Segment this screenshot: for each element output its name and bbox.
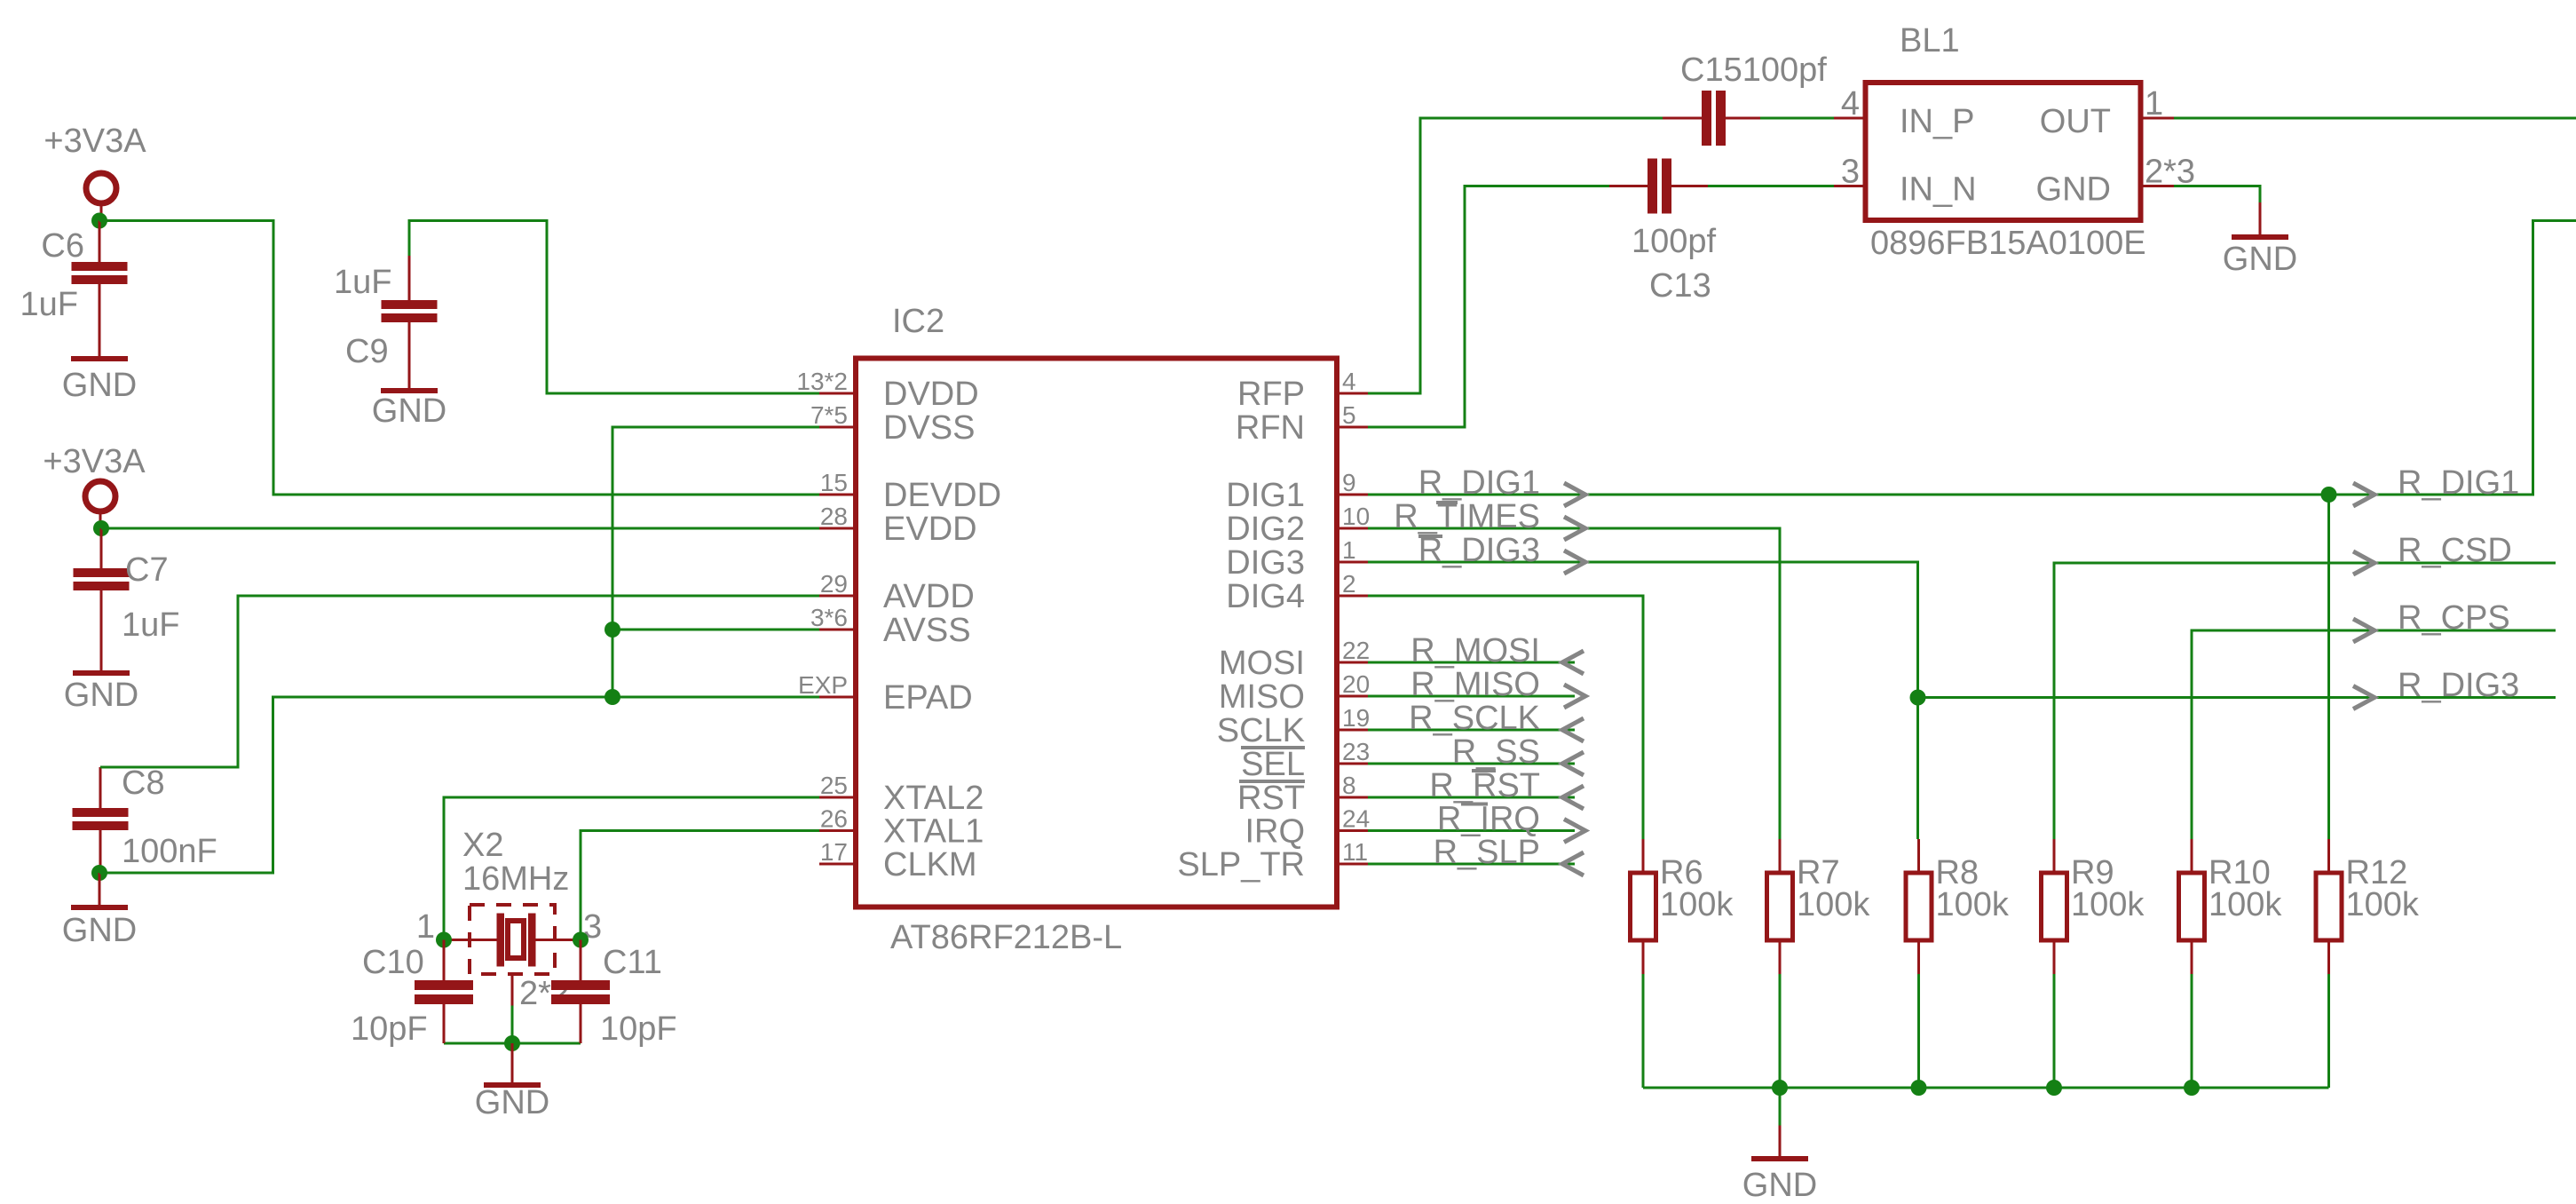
wire EVDD from +3V3A — [101, 527, 819, 530]
svg-text:R_DIG1: R_DIG1 — [2398, 464, 2519, 502]
IC2 pin 10 DIG2 stub — [1335, 527, 1368, 530]
svg-text:C8: C8 — [122, 764, 165, 802]
svg-text:24: 24 — [1342, 805, 1370, 833]
IC2 pin EXP EPAD stub — [819, 696, 857, 699]
svg-text:+3V3A: +3V3A — [43, 123, 146, 160]
balun BL1 body — [1866, 83, 2141, 220]
IC2 pin 1 DIG3 stub — [1335, 561, 1368, 564]
wire R9 bottom to bus — [2053, 974, 2056, 1088]
svg-text:C10: C10 — [362, 944, 424, 981]
wire R12 pullup vertical — [2327, 495, 2330, 839]
wire R8 bottom to bus — [1917, 974, 1920, 1088]
svg-text:MOSI: MOSI — [1219, 645, 1305, 682]
svg-text:R_SS: R_SS — [1452, 733, 1540, 771]
svg-text:100k: 100k — [2346, 886, 2420, 923]
svg-text:100k: 100k — [1936, 886, 2010, 923]
capacitor C6 1uF — [99, 221, 101, 263]
junction node bus/R9 — [2046, 1080, 2062, 1096]
IC2 pin 7*5 DVSS stub — [819, 426, 857, 429]
R_RST arrow — [1562, 786, 1584, 809]
wire R10 bottom to bus — [2191, 974, 2193, 1088]
IC2 pin 4 RFP stub — [1335, 392, 1368, 395]
crystal X2 16MHz — [444, 939, 497, 941]
svg-text:SEL: SEL — [1241, 746, 1305, 783]
IC2 pin 8 RST stub — [1335, 796, 1368, 799]
svg-text:GND: GND — [1742, 1167, 1817, 1204]
svg-text:R_MOSI: R_MOSI — [1410, 632, 1540, 669]
resistor R6 100k — [1642, 839, 1645, 871]
BL1 pin 3 IN_N stub — [1834, 185, 1868, 187]
svg-text:R_SLP: R_SLP — [1434, 834, 1540, 871]
svg-text:C15100pf: C15100pf — [1680, 51, 1827, 89]
svg-text:100pf: 100pf — [1632, 223, 1717, 260]
IC2 pin 9 DIG1 stub — [1335, 494, 1368, 496]
svg-text:X2: X2 — [462, 827, 503, 864]
ground below crystal — [511, 1043, 514, 1082]
svg-text:4: 4 — [1841, 85, 1860, 123]
svg-text:15: 15 — [820, 469, 848, 496]
junction node X2 pin3 — [573, 932, 589, 948]
svg-text:1: 1 — [2145, 85, 2163, 123]
svg-text:C11: C11 — [603, 944, 662, 981]
wire R_MOSI net — [1368, 661, 1575, 664]
svg-text:1uF: 1uF — [334, 264, 391, 301]
svg-text:AVSS: AVSS — [883, 612, 971, 649]
IC2 pin 15 DEVDD stub — [819, 494, 857, 496]
svg-text:RST: RST — [1237, 780, 1305, 817]
svg-text:GND: GND — [372, 392, 446, 430]
R_DIG3 arrow right — [2353, 686, 2375, 709]
IC2 pin 26 XTAL1 stub — [819, 829, 857, 832]
wire R7 bottom to bus — [1779, 974, 1782, 1088]
svg-text:100k: 100k — [2209, 886, 2282, 923]
wire R_SS net — [1368, 763, 1575, 765]
wire DIG4 to R6 — [1368, 596, 1643, 839]
svg-text:100k: 100k — [1660, 886, 1734, 923]
IC2 pin 13*2 DVDD stub — [819, 392, 857, 395]
IC2 pin name RST overline — [1239, 780, 1305, 783]
svg-text:OUT: OUT — [2040, 103, 2111, 140]
svg-text:1uF: 1uF — [122, 606, 179, 644]
R_IRQ overline — [1461, 803, 1488, 806]
capacitor C9 1uF — [408, 256, 411, 300]
svg-text:R_DIG3: R_DIG3 — [2398, 667, 2519, 704]
svg-text:11: 11 — [1342, 838, 1368, 866]
supply +3V3A (top) — [86, 173, 116, 203]
svg-text:R_DIG1: R_DIG1 — [1418, 464, 1540, 502]
resistor R10 100k — [2191, 839, 2193, 871]
svg-text:SLP_TR: SLP_TR — [1177, 846, 1305, 883]
svg-text:DVSS: DVSS — [883, 409, 975, 447]
resistor R9 100k — [2053, 839, 2056, 871]
R_IRQ arrow — [1564, 820, 1585, 843]
svg-text:AT86RF212B-L: AT86RF212B-L — [890, 919, 1122, 956]
R_TIMES arrow — [1564, 517, 1585, 540]
wire R_DIG1 net — [1368, 221, 2576, 495]
resistor R7 100k — [1779, 839, 1782, 871]
ground below BL1 — [2259, 202, 2262, 234]
svg-text:CLKM: CLKM — [883, 846, 977, 883]
svg-text:0896FB15A0100E: 0896FB15A0100E — [1870, 225, 2146, 262]
junction node R_DIG3 branch — [1910, 690, 1926, 706]
svg-text:26: 26 — [820, 805, 848, 833]
IC2 pin 3*6 AVSS stub — [819, 629, 857, 631]
wire X2 pin2 to gnd bus — [511, 1006, 514, 1044]
R_MISO arrow — [1564, 685, 1585, 708]
capacitor C15 100pf — [1663, 117, 1702, 120]
svg-text:28: 28 — [820, 503, 848, 530]
svg-text:DIG3: DIG3 — [1226, 544, 1305, 582]
svg-text:AVDD: AVDD — [883, 578, 975, 615]
svg-text:R_CSD: R_CSD — [2398, 532, 2512, 569]
svg-text:1: 1 — [416, 908, 435, 946]
wire R_IRQ net — [1368, 829, 1575, 832]
wire R_RST net — [1368, 796, 1575, 799]
svg-text:17: 17 — [820, 838, 848, 866]
R_MOSI arrow — [1562, 651, 1584, 674]
R_CSD arrow — [2353, 551, 2375, 574]
svg-text:+3V3A: +3V3A — [43, 443, 146, 480]
svg-text:3: 3 — [1841, 154, 1860, 191]
svg-text:2: 2 — [1342, 570, 1356, 598]
svg-text:10pF: 10pF — [600, 1010, 677, 1048]
svg-text:IC2: IC2 — [892, 303, 944, 340]
junction node +3V3A/C7 — [93, 520, 109, 536]
svg-text:4: 4 — [1342, 368, 1356, 395]
R_DIG3 overline near IC — [1418, 535, 1442, 538]
R_SCLK arrow — [1562, 718, 1584, 741]
svg-text:BL1: BL1 — [1900, 22, 1960, 59]
svg-text:EXP: EXP — [798, 671, 848, 699]
IC2 pin 25 XTAL2 stub — [819, 796, 857, 799]
IC2 pin name SEL overline — [1241, 746, 1305, 749]
svg-text:100nF: 100nF — [122, 833, 217, 870]
wire C15 to BL1 IN_P — [1760, 117, 1834, 120]
wire XTAL1 to X2 pin3 — [581, 831, 819, 940]
svg-text:GND: GND — [64, 677, 138, 714]
BL1 pin 4 IN_P stub — [1834, 117, 1868, 120]
junction node bus/R7 — [1772, 1080, 1788, 1096]
R_DIG3 arrow near IC — [1564, 551, 1585, 574]
IC2 pin 23 SEL stub — [1335, 763, 1368, 765]
resistor R8 100k — [1917, 839, 1920, 871]
svg-text:EVDD: EVDD — [883, 511, 977, 548]
IC2 pin 17 CLKM stub — [819, 863, 857, 866]
svg-text:16MHz: 16MHz — [462, 860, 569, 898]
wire AVDD to C8 top — [100, 596, 819, 767]
wire R_MISO net — [1368, 695, 1575, 698]
R_DIG1 arrow right — [2353, 483, 2375, 506]
svg-text:R_CPS: R_CPS — [2398, 599, 2510, 637]
wire C13 to BL1 IN_N — [1708, 185, 1834, 187]
IC2 pin 28 EVDD stub — [819, 527, 857, 530]
wire AVSS row — [612, 629, 819, 631]
wire BL1 OUT to edge — [2174, 117, 2576, 120]
svg-text:R_SCLK: R_SCLK — [1409, 700, 1540, 737]
wire R6 bottom to bus — [1642, 974, 1645, 1088]
junction node C8 bottom — [91, 865, 107, 881]
svg-text:C7: C7 — [125, 551, 169, 589]
svg-text:MISO: MISO — [1219, 678, 1305, 716]
wire EPAD row — [99, 697, 819, 873]
IC2 pin 11 SLP_TR stub — [1335, 863, 1368, 866]
wire R_TIMES net DIG2 — [1368, 528, 1780, 839]
svg-text:29: 29 — [820, 570, 848, 598]
R_TIMES overline — [1436, 501, 1458, 504]
svg-text:5: 5 — [1342, 401, 1356, 429]
wire C9 to DVDD — [409, 221, 819, 394]
svg-text:XTAL1: XTAL1 — [883, 813, 984, 851]
svg-text:DIG1: DIG1 — [1226, 477, 1305, 514]
svg-text:7*5: 7*5 — [810, 401, 848, 429]
svg-text:C6: C6 — [41, 227, 84, 265]
svg-text:DVDD: DVDD — [883, 376, 979, 413]
svg-text:IRQ: IRQ — [1245, 813, 1305, 851]
svg-text:GND: GND — [62, 367, 137, 404]
R_RST overline — [1472, 769, 1496, 772]
svg-text:SCLK: SCLK — [1217, 712, 1305, 749]
svg-text:13*2: 13*2 — [796, 368, 848, 395]
wire XTAL2 to X2 pin1 — [444, 797, 819, 940]
svg-text:19: 19 — [1342, 704, 1370, 732]
svg-text:EPAD: EPAD — [883, 679, 973, 717]
svg-text:R_IRQ: R_IRQ — [1437, 801, 1540, 838]
svg-text:100k: 100k — [2071, 886, 2145, 923]
svg-text:DIG2: DIG2 — [1226, 511, 1305, 548]
capacitor C11 10pF — [580, 940, 582, 981]
svg-text:10: 10 — [1342, 503, 1370, 530]
wire R_CSD net from R9 — [2054, 563, 2556, 839]
wire RFN to C13 — [1368, 186, 1609, 428]
svg-text:GND: GND — [475, 1084, 549, 1121]
ground below C7 — [100, 669, 103, 672]
junction node X2 pin1 — [436, 932, 452, 948]
svg-text:IN_N: IN_N — [1900, 171, 1977, 209]
ground below C8 — [99, 873, 101, 905]
wire R_DIG3 net DIG3 — [1368, 562, 1918, 839]
IC2 pin 20 MISO stub — [1335, 695, 1368, 698]
wire bus to gnd — [1779, 1088, 1782, 1126]
junction node bus/R8 — [1911, 1080, 1927, 1096]
svg-text:IN_P: IN_P — [1900, 103, 1974, 140]
svg-text:20: 20 — [1342, 670, 1370, 698]
R_CPS arrow — [2353, 619, 2375, 642]
IC2 pin 24 IRQ stub — [1335, 829, 1368, 832]
capacitor C8 100nF — [99, 767, 102, 808]
svg-text:8: 8 — [1342, 772, 1356, 799]
wire resistor gnd bus — [1643, 1087, 2329, 1089]
svg-text:R_MISO: R_MISO — [1410, 666, 1540, 703]
svg-text:DIG4: DIG4 — [1226, 578, 1305, 615]
svg-text:22: 22 — [1342, 637, 1370, 664]
ground below resistor bus — [1779, 1126, 1782, 1157]
svg-text:GND: GND — [62, 912, 137, 949]
wire R_SCLK net — [1368, 729, 1575, 732]
svg-text:9: 9 — [1342, 469, 1356, 496]
capacitor C10 10pF — [443, 940, 446, 981]
svg-text:R_TIMES: R_TIMES — [1394, 498, 1540, 535]
wire +3V3A to DEVDD — [99, 221, 819, 495]
svg-text:1: 1 — [1342, 536, 1356, 564]
IC2 pin 22 MOSI stub — [1335, 661, 1368, 664]
wire crystal gnd bus — [444, 1042, 581, 1045]
svg-text:GND: GND — [2036, 171, 2111, 209]
wire RFP to C15 — [1368, 118, 1663, 393]
ground below C6 — [99, 355, 101, 358]
wire BL1 GND pin — [2174, 186, 2260, 203]
svg-text:25: 25 — [820, 772, 848, 799]
svg-text:C9: C9 — [345, 333, 389, 370]
svg-text:3*6: 3*6 — [810, 604, 848, 631]
BL1 pin 2*3 GND stub — [2140, 185, 2174, 187]
resistor R12 100k — [2327, 839, 2330, 871]
svg-text:RFN: RFN — [1236, 409, 1305, 447]
junction node bus/R10 — [2184, 1080, 2200, 1096]
svg-text:100k: 100k — [1797, 886, 1870, 923]
svg-text:XTAL2: XTAL2 — [883, 780, 984, 817]
svg-text:DEVDD: DEVDD — [883, 477, 1001, 514]
capacitor C13 100pf — [1609, 185, 1648, 187]
svg-text:C13: C13 — [1649, 267, 1711, 305]
svg-text:1uF: 1uF — [20, 286, 78, 323]
junction node +3V3A/C6 — [91, 213, 107, 229]
IC2 pin 19 SCLK stub — [1335, 729, 1368, 732]
wire R12 bottom to bus — [2327, 974, 2330, 1088]
svg-text:10pF: 10pF — [351, 1010, 428, 1048]
wire R_CPS net from R10 — [2192, 630, 2556, 839]
IC2 pin 5 RFN stub — [1335, 426, 1368, 429]
wire DVSS net vertical — [612, 427, 819, 697]
R_SS arrow — [1562, 752, 1584, 775]
junction node crystal gnd — [504, 1035, 520, 1051]
IC2 pin 2 DIG4 stub — [1335, 595, 1368, 598]
capacitor C7 1uF — [100, 528, 103, 568]
svg-text:RFP: RFP — [1237, 376, 1305, 413]
supply +3V3A (second) — [85, 481, 115, 511]
IC IC2 body AT86RF212B-L — [856, 359, 1337, 907]
ground below C9 — [408, 387, 411, 390]
BL1 pin 1 OUT stub — [2140, 117, 2174, 120]
svg-text:GND: GND — [2223, 241, 2297, 278]
IC2 pin 29 AVDD stub — [819, 595, 857, 598]
wire R_SLP net — [1368, 863, 1575, 866]
wire R_DIG3 to right edge — [1918, 696, 2556, 699]
junction node AVSS — [604, 622, 620, 638]
svg-text:R_RST: R_RST — [1429, 767, 1540, 804]
svg-text:23: 23 — [1342, 738, 1370, 765]
R_SLP arrow — [1562, 852, 1584, 875]
R_DIG1 arrow near IC — [1564, 483, 1585, 506]
junction node R_DIG1/R12 — [2321, 487, 2337, 503]
junction node EPAD — [604, 689, 620, 705]
